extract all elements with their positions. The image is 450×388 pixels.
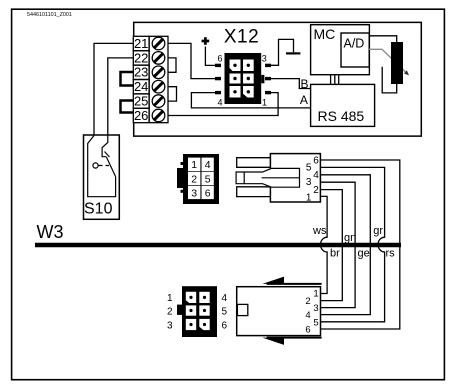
svg-text:3: 3 <box>306 177 312 188</box>
terminal 22 <box>133 50 149 65</box>
X12 pin 4 stub <box>215 91 221 94</box>
svg-text:rs: rs <box>386 248 396 260</box>
plug side view bottom <box>237 277 322 345</box>
terminal 23 <box>133 65 149 80</box>
svg-text:5446101101_Z001: 5446101101_Z001 <box>27 12 72 18</box>
svg-text:23: 23 <box>134 65 148 80</box>
plus supply symbol <box>202 37 210 45</box>
wire A/D to potentiometer bottom <box>382 67 397 93</box>
svg-text:br: br <box>330 248 340 260</box>
svg-text:21: 21 <box>134 36 148 51</box>
svg-text:5: 5 <box>222 307 228 318</box>
svg-text:RS 485: RS 485 <box>318 108 365 124</box>
svg-text:S10: S10 <box>84 201 113 218</box>
svg-text:4: 4 <box>205 159 211 171</box>
svg-text:1: 1 <box>191 159 197 171</box>
RS485 box <box>311 84 375 126</box>
wire terminal 21 to S10 <box>94 43 134 135</box>
svg-text:A/D: A/D <box>344 37 365 51</box>
connector X12 body <box>225 53 265 104</box>
wire X12 pin 1 to terminal 26 <box>168 93 278 116</box>
wire plus to X12 pin 6 <box>205 47 215 66</box>
svg-text:3: 3 <box>313 303 318 314</box>
X12 pin 5 stub <box>215 77 221 80</box>
svg-text:5: 5 <box>205 173 211 185</box>
svg-text:5: 5 <box>306 163 312 174</box>
svg-text:MC: MC <box>314 26 336 42</box>
plug side view upper <box>236 154 320 204</box>
svg-text:3: 3 <box>191 187 197 199</box>
terminal 21 <box>133 36 149 51</box>
wire ge plug pin4 to lower pin4 <box>320 175 370 315</box>
svg-text:gr: gr <box>373 225 383 237</box>
wire gr plug pin5 to lower pin5 <box>320 167 384 321</box>
potentiometer body <box>391 42 403 84</box>
svg-text:3: 3 <box>262 54 267 64</box>
svg-text:26: 26 <box>134 108 148 123</box>
svg-text:4: 4 <box>222 293 228 304</box>
wire MC to potentiometer top <box>369 36 396 42</box>
module MC box <box>311 25 370 75</box>
svg-text:1: 1 <box>262 98 267 108</box>
svg-text:2: 2 <box>305 296 310 307</box>
potentiometer wiper arrow <box>369 49 409 75</box>
svg-text:ge: ge <box>358 248 370 260</box>
svg-text:4: 4 <box>313 170 319 181</box>
wire br plug pin2 to lower pin2 <box>320 190 342 301</box>
svg-text:W3: W3 <box>37 222 64 242</box>
jumper terminals 25-26 <box>121 101 135 113</box>
wire gn plug pin3 to lower pin3 <box>320 182 355 307</box>
svg-text:6: 6 <box>305 325 310 336</box>
jumper terminals 24-25 <box>168 87 177 101</box>
svg-text:X12: X12 <box>224 27 259 48</box>
svg-text:4: 4 <box>217 98 222 108</box>
jumper terminals 22-23 <box>168 58 176 72</box>
svg-text:24: 24 <box>134 79 148 94</box>
svg-text:2: 2 <box>191 173 197 185</box>
svg-text:3: 3 <box>167 320 173 331</box>
svg-text:22: 22 <box>134 50 148 65</box>
X12 pin 3 stub <box>265 64 271 67</box>
svg-text:B: B <box>301 77 309 91</box>
svg-text:ws: ws <box>312 225 327 237</box>
wire terminal 21 to X12 pin 5 <box>168 43 215 78</box>
bus MC to RS485 <box>331 75 339 85</box>
cable W3 <box>35 243 401 247</box>
wire rs plug pin6 to lower pin6 <box>320 160 399 329</box>
A/D converter box <box>341 33 369 67</box>
wire terminal 22 to S10 <box>108 58 134 135</box>
svg-text:5: 5 <box>313 317 318 328</box>
wire X12 pin 2 to RS485 B <box>271 79 311 89</box>
switch S10 <box>84 135 120 219</box>
svg-text:gn: gn <box>344 232 356 244</box>
svg-text:25: 25 <box>134 94 148 109</box>
terminal 24 <box>133 79 149 94</box>
ground symbol <box>286 52 300 54</box>
terminal 25 <box>133 94 149 109</box>
connector face view middle <box>177 154 219 204</box>
wire X12 pin 4 to RS485 A <box>191 93 310 108</box>
terminal 26 <box>133 108 149 123</box>
svg-text:6: 6 <box>222 320 228 331</box>
svg-text:2: 2 <box>313 185 319 196</box>
terminal strip screw column <box>149 36 168 122</box>
svg-text:1: 1 <box>313 289 318 300</box>
svg-text:6: 6 <box>205 187 211 199</box>
jumper terminals 23-24 <box>121 72 135 86</box>
svg-text:6: 6 <box>217 54 222 64</box>
wire ws plug pin1 to lower pin1 <box>320 196 327 293</box>
controller box <box>134 22 422 136</box>
svg-text:2: 2 <box>167 307 173 318</box>
X12 pin 6 stub <box>215 64 221 67</box>
X12 pin 2 stub <box>265 77 271 80</box>
svg-text:6: 6 <box>313 155 319 166</box>
svg-text:1: 1 <box>306 193 312 204</box>
svg-text:4: 4 <box>305 310 310 321</box>
wire X12 pin 3 to ground <box>271 39 294 65</box>
connector face view bottom <box>167 286 228 337</box>
svg-text:1: 1 <box>167 293 173 304</box>
X12 pin 1 stub <box>265 91 271 94</box>
svg-text:A: A <box>300 93 308 107</box>
